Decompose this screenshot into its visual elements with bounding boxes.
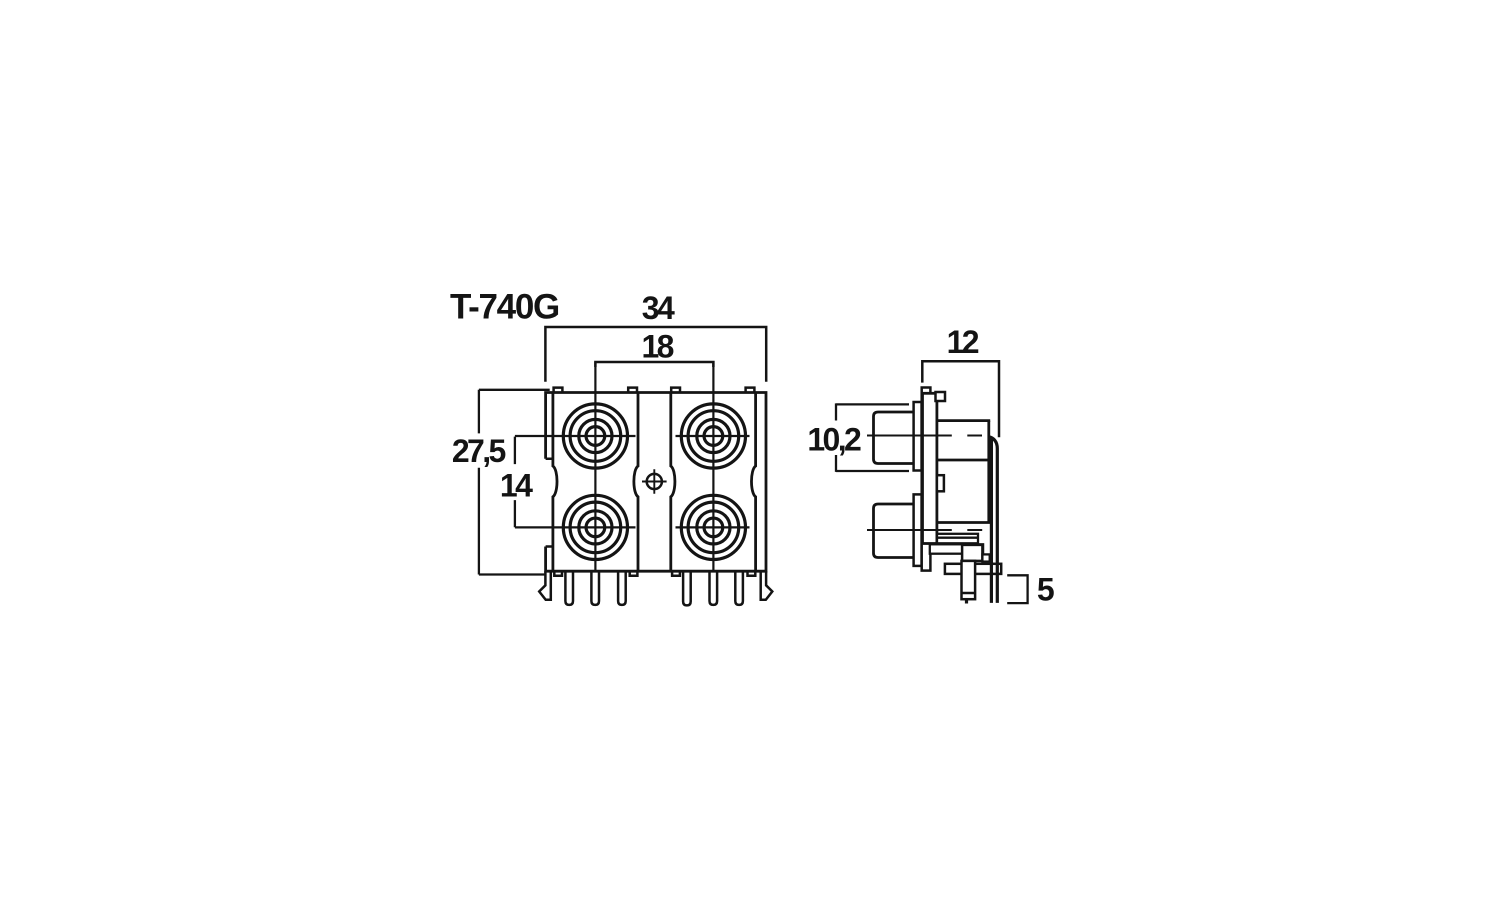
pin 5 — [710, 571, 718, 605]
top jack barrel (side) — [874, 412, 915, 464]
middle side tab — [937, 475, 944, 491]
dimension 5 bracket — [1007, 575, 1027, 603]
top mounting tab 3 — [671, 388, 680, 393]
bottom tab 3 — [672, 571, 680, 576]
housing divider — [937, 459, 989, 462]
row centerline bottom — [515, 526, 750, 528]
dimension 10,2 lines — [836, 403, 909, 472]
svg-text:5: 5 — [1037, 572, 1054, 608]
svg-text:34: 34 — [642, 290, 675, 326]
side pin — [962, 561, 976, 599]
pin 1 — [565, 571, 573, 605]
body inner right edge with bump — [751, 393, 755, 572]
center target symbol — [642, 469, 667, 494]
top mounting tab 1 — [554, 388, 563, 393]
dimension 18 line — [595, 362, 713, 367]
pin 3 — [618, 571, 626, 605]
pin 6 — [735, 571, 743, 605]
center strip right line with bump — [671, 393, 675, 572]
rear wire 1 — [990, 438, 993, 603]
jack bottom-right rings — [681, 495, 745, 559]
housing bottom edge — [937, 521, 990, 524]
top mounting tab 4 — [746, 388, 755, 393]
side pin tip — [965, 599, 968, 603]
dimension 27,5 lines — [479, 390, 552, 575]
left edge steps — [546, 459, 553, 547]
center strip left line with bump — [634, 393, 638, 572]
front panel flange — [923, 393, 937, 543]
small rear block — [982, 554, 989, 561]
jack bottom-left rings — [563, 495, 627, 559]
svg-text:18: 18 — [641, 329, 673, 365]
foot bar — [945, 564, 1001, 574]
bottom tab 4 — [748, 571, 756, 576]
row centerline top — [515, 435, 750, 437]
housing rear edge — [987, 421, 990, 524]
svg-text:T-740G: T-740G — [450, 287, 559, 326]
jack top-right rings — [681, 404, 745, 468]
rear wire 2 (bent bracket) — [989, 437, 998, 603]
body outline — [546, 393, 766, 572]
top mounting tab 2 — [628, 388, 637, 393]
svg-text:10,2: 10,2 — [807, 422, 861, 458]
side centerline top — [867, 435, 982, 437]
left bent leg — [539, 571, 551, 600]
rear tab plate (tall) — [922, 388, 931, 571]
dimension 34 line — [545, 327, 766, 382]
bottom jack barrel (side) — [874, 504, 915, 558]
bottom tab 2 — [630, 571, 638, 576]
solder lug thin bar — [937, 534, 978, 544]
column centerline right (18 extension) — [712, 362, 714, 571]
solder lug band — [930, 544, 983, 553]
jack top-left rings — [563, 404, 627, 468]
column centerline left (18 extension) — [594, 362, 596, 571]
dimension 12 line — [922, 361, 999, 437]
pin block — [962, 545, 982, 561]
pin 4 — [683, 571, 691, 605]
svg-text:12: 12 — [947, 324, 979, 360]
washer plate top (10.2) — [914, 402, 922, 471]
bottom tab 1 — [554, 571, 562, 576]
washer plate bottom — [914, 494, 922, 566]
svg-text:27,5: 27,5 — [452, 433, 506, 469]
housing top edge — [937, 419, 990, 422]
side centerline bottom — [867, 529, 982, 531]
pin 2 — [591, 571, 599, 605]
top side tab — [936, 392, 946, 401]
svg-text:14: 14 — [500, 468, 533, 504]
body inner left edge with bump — [553, 393, 557, 572]
dimension 14 line — [514, 437, 516, 528]
right bent leg — [761, 571, 773, 600]
